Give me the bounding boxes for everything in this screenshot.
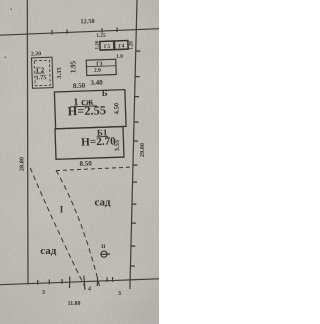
svg-text:12.50: 12.50 xyxy=(80,18,94,25)
tick on top line xyxy=(66,29,68,34)
svg-text:1.20: 1.20 xyxy=(130,41,135,50)
underline of Г2 xyxy=(36,72,45,74)
long tick on bottom line xyxy=(69,276,71,288)
tick on right line xyxy=(133,181,137,183)
dashed inner boundary horizontal xyxy=(56,167,131,171)
svg-text:8.50: 8.50 xyxy=(73,82,86,90)
svg-text:II: II xyxy=(101,244,105,250)
building part Б1 xyxy=(55,127,124,160)
tick on bottom line xyxy=(37,280,39,285)
svg-text:Н=2.55: Н=2.55 xyxy=(67,103,106,118)
svg-text:3.55: 3.55 xyxy=(114,139,121,151)
shed Г2 inner dashed box xyxy=(34,60,50,85)
underline of Б1 xyxy=(97,135,108,137)
tick on bottom line xyxy=(112,277,114,282)
tick on right line xyxy=(134,140,138,142)
tick on top line xyxy=(51,30,53,35)
tick on right line xyxy=(131,222,135,224)
well symbol bar xyxy=(101,253,110,255)
tick on right line xyxy=(135,96,139,98)
tick on right line xyxy=(131,245,135,247)
tick on bottom line at diagonal B end xyxy=(96,277,98,286)
svg-text:1.75: 1.75 xyxy=(35,74,46,81)
paper background xyxy=(0,0,159,324)
speck left margin xyxy=(5,57,7,59)
left boundary line 28.80 xyxy=(26,0,29,284)
tick on right line xyxy=(136,50,140,52)
bottom boundary line 11.80 xyxy=(0,279,159,285)
tick on right line xyxy=(133,164,137,166)
svg-text:3: 3 xyxy=(42,290,45,296)
svg-text:3.35: 3.35 xyxy=(56,67,63,79)
svg-text:Г3: Г3 xyxy=(96,61,103,67)
svg-text:Г4: Г4 xyxy=(118,43,125,49)
svg-text:Б: Б xyxy=(102,88,108,98)
svg-text:2.20: 2.20 xyxy=(31,51,41,57)
diagonal A end stroke crossing bottom line xyxy=(84,276,85,290)
dashed diagonal line A xyxy=(30,168,84,286)
svg-text:1.0: 1.0 xyxy=(116,54,123,60)
divider between Г5 and Г4 xyxy=(113,41,116,50)
svg-text:4.50: 4.50 xyxy=(113,103,120,115)
tick on bottom line xyxy=(48,279,50,284)
svg-text:сад: сад xyxy=(94,196,111,208)
shed Г3 box xyxy=(86,59,116,75)
tick on right line xyxy=(130,265,134,267)
speck top left xyxy=(11,9,13,11)
tick on bottom line xyxy=(61,279,63,284)
svg-text:I: I xyxy=(60,205,64,215)
tick on top line xyxy=(101,28,103,33)
underline of 1 сж xyxy=(70,105,97,108)
svg-text:Г5: Г5 xyxy=(104,44,111,50)
divider under Г3 xyxy=(86,65,115,68)
shed Г2 outer box xyxy=(31,57,52,88)
building Б xyxy=(54,87,126,129)
tick on right line xyxy=(134,121,138,123)
svg-text:сад: сад xyxy=(40,245,57,257)
tick on top line xyxy=(116,27,118,32)
svg-text:4: 4 xyxy=(88,287,91,293)
dashed diagonal line B xyxy=(56,170,100,288)
svg-text:Н=2.70: Н=2.70 xyxy=(81,135,116,148)
tick on right line xyxy=(135,76,139,78)
svg-text:8.50: 8.50 xyxy=(79,159,92,167)
svg-text:29.00: 29.00 xyxy=(139,143,146,157)
svg-text:1.20: 1.20 xyxy=(95,40,100,49)
scan grain overlay xyxy=(0,0,159,324)
sheds Г5 Г4 box xyxy=(100,41,128,51)
tick on right line xyxy=(132,203,136,205)
svg-text:1.95: 1.95 xyxy=(70,60,78,73)
right boundary line 29.00 xyxy=(130,0,137,289)
svg-text:11.80: 11.80 xyxy=(68,301,81,307)
top boundary line 12.50 xyxy=(0,29,159,36)
svg-text:28.80: 28.80 xyxy=(19,157,26,171)
svg-text:1.25: 1.25 xyxy=(96,33,106,39)
svg-text:3.40: 3.40 xyxy=(90,78,103,86)
well symbol circle xyxy=(101,251,107,257)
svg-text:2.0: 2.0 xyxy=(94,68,101,74)
tick on bottom line xyxy=(106,277,108,282)
scan mottle overlay xyxy=(0,0,159,324)
svg-text:3: 3 xyxy=(118,291,121,297)
